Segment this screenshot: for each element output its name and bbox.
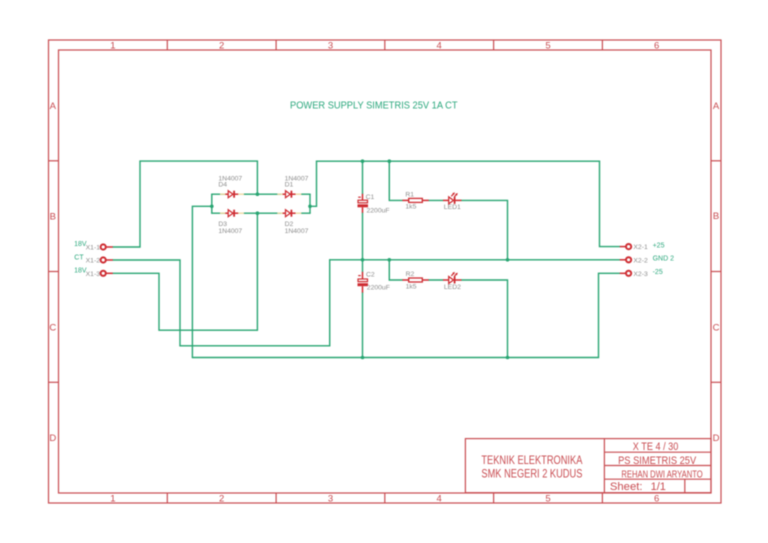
svg-text:5: 5 — [545, 41, 550, 52]
wire bridge right pins — [302, 193, 311, 195]
wire bridge right bracket — [309, 194, 311, 213]
junction bottom row mid — [256, 211, 260, 215]
wire R1 branch riser — [389, 161, 402, 200]
svg-text:C1: C1 — [366, 194, 375, 201]
svg-text:1: 1 — [110, 41, 115, 52]
wire C1 top — [362, 161, 364, 194]
junction C2 minus rail — [361, 356, 365, 360]
svg-text:C2: C2 — [366, 271, 375, 278]
svg-text:1N4007: 1N4007 — [218, 228, 242, 235]
svg-text:X2-3: X2-3 — [633, 271, 648, 278]
svg-text:B: B — [50, 212, 56, 223]
wire LED2 to minus rail — [462, 280, 508, 358]
svg-text:D1: D1 — [285, 182, 294, 189]
svg-text:GND 2: GND 2 — [653, 256, 675, 263]
svg-text:LED1: LED1 — [444, 204, 461, 211]
wire bridge left pins top/bottom — [212, 193, 225, 195]
capacitor C2 — [358, 271, 390, 292]
connector pin X2-3 — [620, 271, 648, 278]
wire R1 to LED1 — [429, 199, 443, 201]
resistor R2 — [402, 271, 428, 290]
svg-text:CT: CT — [74, 254, 84, 261]
connector pin X1-3 — [86, 271, 113, 278]
svg-text:X1-2: X1-2 — [86, 258, 101, 265]
svg-text:X TE 4 / 30: X TE 4 / 30 — [633, 441, 679, 453]
svg-text:6: 6 — [654, 494, 659, 505]
svg-text:X1-3: X1-3 — [86, 271, 101, 278]
diode D1 — [277, 175, 308, 197]
svg-text:1k5: 1k5 — [406, 283, 417, 290]
svg-text:R1: R1 — [405, 191, 414, 198]
wire plus rail — [310, 161, 620, 246]
junction R1 plus rail — [388, 159, 392, 163]
wire bridge left bracket — [211, 194, 213, 213]
resistor R1 — [402, 191, 428, 210]
svg-text:18V: 18V — [74, 241, 87, 248]
connector pin X1-2 — [86, 257, 113, 264]
diode D4 — [218, 175, 244, 197]
wire GND row — [330, 259, 620, 261]
connector pin X2-1 — [620, 244, 648, 251]
svg-text:1/1: 1/1 — [651, 481, 666, 493]
connector pin X2-2 — [620, 257, 648, 264]
wire 18V top link from X1-1 — [113, 161, 258, 247]
junction LED2 minus rail — [506, 356, 510, 360]
svg-text:REHAN DWI ARYANTO: REHAN DWI ARYANTO — [621, 470, 702, 481]
svg-text:X2-1: X2-1 — [633, 244, 648, 251]
svg-text:X2-2: X2-2 — [633, 257, 648, 264]
svg-text:1: 1 — [110, 494, 115, 505]
connector pin X1-1 — [86, 244, 113, 251]
svg-text:C: C — [49, 323, 56, 334]
wire bottom row middle — [244, 212, 281, 214]
wire R2 to LED2 — [429, 279, 443, 281]
svg-text:PS SIMETRIS 25V: PS SIMETRIS 25V — [618, 455, 697, 467]
svg-text:2: 2 — [219, 41, 224, 52]
svg-text:4: 4 — [437, 494, 442, 505]
wire C2 bottom — [362, 293, 364, 358]
svg-text:R2: R2 — [406, 271, 415, 278]
wire LED1 to GND — [462, 200, 508, 259]
svg-text:D: D — [713, 433, 720, 444]
svg-text:C: C — [713, 323, 720, 334]
svg-text:D: D — [49, 433, 56, 444]
svg-text:3: 3 — [328, 494, 333, 505]
svg-text:A: A — [713, 101, 720, 112]
svg-text:-25: -25 — [653, 269, 663, 276]
LED LED2 — [443, 272, 462, 291]
sheet frame — [49, 40, 722, 503]
svg-text:4: 4 — [437, 41, 442, 52]
wire CT to GND riser — [113, 260, 330, 346]
junction right bracket tap — [308, 205, 312, 209]
junction R2 GND — [388, 258, 392, 262]
wires group — [113, 161, 620, 357]
svg-text:2200uF: 2200uF — [367, 284, 390, 291]
junction C1 plus rail — [361, 159, 365, 163]
svg-text:2: 2 — [219, 494, 224, 505]
svg-text:3: 3 — [328, 41, 333, 52]
junction dots — [210, 159, 509, 359]
svg-text:1k5: 1k5 — [405, 204, 416, 211]
svg-text:B: B — [713, 211, 719, 222]
svg-text:+25: +25 — [653, 242, 665, 249]
svg-text:SMK NEGERI 2 KUDUS: SMK NEGERI 2 KUDUS — [481, 469, 582, 481]
capacitor C1 — [358, 194, 390, 215]
junction LED1 GND — [506, 258, 510, 262]
svg-text:2200uF: 2200uF — [367, 208, 390, 215]
svg-text:6: 6 — [654, 41, 659, 52]
wire top row middle — [244, 193, 281, 195]
LED LED1 — [443, 192, 462, 211]
svg-text:D4: D4 — [218, 182, 227, 189]
svg-text:5: 5 — [545, 494, 550, 505]
wire C2 top — [362, 260, 364, 272]
diode D3 — [218, 210, 244, 235]
diode D2 — [277, 210, 308, 235]
junction top row mid — [256, 192, 260, 196]
wire minus rail to X2-3 — [192, 273, 619, 357]
svg-text:18V: 18V — [74, 267, 87, 274]
svg-text:TEKNIK ELEKTRONIKA: TEKNIK ELEKTRONIKA — [481, 455, 582, 467]
svg-text:Sheet:: Sheet: — [610, 481, 643, 493]
wire X1-3 to bottom mid tap — [113, 273, 258, 330]
svg-text:1N4007: 1N4007 — [285, 228, 309, 235]
wire C1 bottom — [362, 213, 364, 260]
svg-text:A: A — [50, 101, 57, 112]
junction C2 GND — [361, 258, 365, 262]
svg-text:X1-1: X1-1 — [86, 245, 101, 252]
title block text school — [481, 441, 702, 493]
wire R2 branch riser — [389, 260, 402, 280]
svg-text:POWER SUPPLY SIMETRIS 25V 1A C: POWER SUPPLY SIMETRIS 25V 1A CT — [290, 100, 458, 111]
wire bottom mid tap down — [256, 213, 258, 330]
svg-text:LED2: LED2 — [444, 284, 461, 291]
wire bridge left tap to negative rail — [192, 206, 211, 357]
title block — [465, 439, 711, 493]
junction left bracket tap — [210, 205, 214, 209]
